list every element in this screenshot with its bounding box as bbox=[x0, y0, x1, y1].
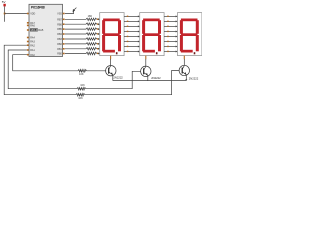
resistor 180 row 6 bbox=[86, 43, 97, 46]
resistor 180 row 8 bbox=[86, 52, 97, 55]
IC right pin RB4 bbox=[63, 33, 65, 35]
svg-text:RA4: RA4 bbox=[30, 37, 35, 40]
IC left pin RA4 bbox=[27, 37, 29, 39]
IC U1 PIC16F88 body bbox=[29, 4, 63, 56]
wire 5V rail vertical bbox=[4, 6, 6, 21]
display DS1 segment a (top) bbox=[103, 19, 120, 22]
7-segment display DS3 module bbox=[178, 13, 202, 56]
ground arrow symbol bbox=[74, 8, 77, 11]
svg-text:RA3: RA3 bbox=[30, 41, 35, 44]
display DS2 segment b (top-right) bbox=[158, 20, 161, 34]
wire emitter Q3 to bus bbox=[185, 74, 187, 79]
transistor Q3 2N2222 bbox=[179, 65, 189, 75]
svg-text:RB5: RB5 bbox=[57, 28, 62, 31]
wire segment bus gap1 row 3 bbox=[124, 25, 138, 27]
wire segment bus gap1 row 6 bbox=[124, 41, 138, 43]
display DS1 segment f (top-left) bbox=[102, 20, 105, 34]
wire emitter Q2 to bus bbox=[147, 75, 149, 81]
display DS1 segment g (middle) bbox=[103, 33, 120, 36]
display DS1 decimal point bbox=[116, 52, 118, 54]
svg-text:MCLR: MCLR bbox=[31, 29, 38, 32]
wire resistor to display arrow bbox=[97, 48, 99, 50]
wire VSS bbox=[65, 10, 74, 13]
display DS2 segment e (bottom-left) bbox=[142, 35, 145, 51]
wire segment bus gap2 row 1 bbox=[164, 15, 176, 17]
wire RB7 to resistor bbox=[65, 18, 86, 20]
wire collector Q3 bbox=[183, 59, 185, 66]
display DS3 segment a (top) bbox=[181, 19, 198, 22]
IC left pin RA5/MCLR label with inverted MCLR box bbox=[30, 28, 38, 31]
IC left pin RA2 bbox=[27, 44, 29, 46]
5V terminal pad bbox=[3, 4, 5, 7]
wire R4 to Q1 base bbox=[87, 70, 107, 72]
svg-text:RB6: RB6 bbox=[57, 23, 62, 26]
wire collector Q2 bbox=[145, 59, 147, 67]
wire segment bus gap2 row 3 bbox=[164, 25, 176, 27]
wire RB4 to resistor bbox=[65, 33, 86, 35]
wire RB0 to resistor bbox=[65, 53, 86, 55]
wire segment bus gap2 row 2 bbox=[164, 20, 176, 22]
wire R5 to Q2 base bbox=[86, 71, 141, 88]
wire segment bus gap2 row 8 bbox=[164, 51, 176, 53]
display DS3 segment c (bottom-right) bbox=[196, 35, 199, 51]
IC left pin RA1 bbox=[27, 49, 29, 51]
display DS1 segment e (bottom-left) bbox=[102, 35, 105, 51]
wire segment bus gap2 row 5 bbox=[164, 36, 176, 38]
IC left pin RA0 bbox=[27, 54, 29, 56]
svg-text:10K: 10K bbox=[78, 96, 83, 100]
svg-text:RA2: RA2 bbox=[30, 44, 35, 47]
display DS3 segment d (bottom) bbox=[181, 50, 193, 53]
IC left pin RA7 bbox=[27, 22, 29, 24]
resistor 180 row 4 bbox=[86, 33, 97, 35]
resistor 180 row 5 bbox=[86, 38, 97, 40]
wire emitter Q1 to bus bbox=[112, 74, 114, 80]
wire segment bus gap1 row 8 bbox=[124, 51, 138, 53]
svg-text:2N2222: 2N2222 bbox=[189, 76, 199, 80]
svg-text:VDD: VDD bbox=[30, 13, 35, 16]
display DS1 segment c (bottom-right) bbox=[118, 35, 121, 51]
resistor R6 10K (Q3 base) bbox=[76, 94, 85, 97]
svg-text:RA5: RA5 bbox=[38, 28, 44, 32]
IC left pin VDD bbox=[27, 13, 29, 15]
wire R6 to Q3 base bbox=[85, 71, 180, 95]
svg-text:2N2222: 2N2222 bbox=[151, 76, 161, 80]
wire RB1 to resistor bbox=[65, 48, 86, 50]
display pin stub to Q3 collector bbox=[183, 56, 185, 60]
transistor Q2 2N2222 bbox=[141, 66, 151, 76]
IC right pin VSS bbox=[63, 13, 65, 15]
resistor 180 row 3 bbox=[86, 28, 97, 31]
wire common emitter bus bbox=[113, 80, 187, 82]
wire RB6 to resistor bbox=[65, 23, 86, 25]
wire VDD to rail bbox=[5, 13, 28, 15]
display DS2 segment a (top) bbox=[143, 19, 160, 22]
wire segment bus gap1 row 5 bbox=[124, 36, 138, 38]
svg-text:RB0: RB0 bbox=[57, 53, 62, 56]
wire resistor to display arrow bbox=[97, 38, 99, 40]
svg-text:10K: 10K bbox=[80, 83, 85, 87]
wire segment bus gap2 row 7 bbox=[164, 46, 176, 48]
svg-text:RB1: RB1 bbox=[57, 48, 62, 51]
display DS3 decimal point bbox=[194, 52, 196, 54]
wire resistor to display arrow bbox=[97, 28, 99, 30]
display DS2 segment f (top-left) bbox=[142, 20, 145, 34]
wire RA1 pin to R5 base resistor bbox=[8, 50, 77, 89]
svg-text:VSS: VSS bbox=[57, 13, 62, 16]
wire segment bus gap2 row 6 bbox=[164, 41, 176, 43]
svg-text:5V: 5V bbox=[2, 0, 6, 4]
IC right pin RB0 bbox=[63, 53, 65, 55]
svg-text:RA6: RA6 bbox=[30, 25, 35, 28]
svg-text:RB4: RB4 bbox=[57, 33, 62, 36]
display pin stub to Q2 collector bbox=[145, 56, 147, 60]
svg-text:PIC16F88: PIC16F88 bbox=[31, 6, 45, 10]
wire resistor to display arrow bbox=[97, 43, 99, 45]
wire RB5 to resistor bbox=[65, 28, 86, 30]
display DS1 segment b (top-right) bbox=[118, 20, 121, 34]
wire RA2 pin to R6 base resistor bbox=[4, 45, 76, 94]
display DS2 segment d (bottom) bbox=[143, 50, 155, 53]
transistor Q1 2N2222 bbox=[106, 66, 116, 76]
display DS2 decimal point bbox=[156, 52, 158, 54]
wire segment bus gap1 row 1 bbox=[124, 15, 138, 17]
display DS3 segment g (middle) bbox=[181, 33, 198, 36]
resistor R4 10K (Q1 base) bbox=[78, 70, 87, 73]
IC right pin RB1 bbox=[63, 48, 65, 50]
wire resistor to display arrow bbox=[97, 33, 99, 35]
7-segment display DS2 module bbox=[140, 13, 164, 56]
IC right pin RB3 bbox=[63, 38, 65, 40]
wire RB3 to resistor bbox=[65, 38, 86, 40]
wire segment bus gap1 row 7 bbox=[124, 46, 138, 48]
wire segment bus gap2 row 4 bbox=[164, 31, 176, 33]
IC right pin RB7 bbox=[63, 19, 65, 21]
wire resistor to display arrow bbox=[97, 23, 99, 25]
svg-text:RB7: RB7 bbox=[57, 18, 62, 21]
display pin stub to Q1 collector bbox=[110, 56, 112, 60]
display DS2 segment c (bottom-right) bbox=[158, 35, 161, 51]
display DS3 segment b (top-right) bbox=[196, 20, 199, 34]
display DS3 segment f (top-left) bbox=[180, 20, 183, 34]
wire resistor to display arrow bbox=[97, 18, 99, 20]
wire RB2 to resistor bbox=[65, 43, 86, 45]
wire RA0 pin to R4 base resistor bbox=[13, 55, 78, 71]
junction dot on 5V rail bbox=[4, 13, 6, 15]
svg-text:RB3: RB3 bbox=[57, 38, 62, 41]
wire segment bus gap1 row 4 bbox=[124, 31, 138, 33]
IC right pin RB2 bbox=[63, 43, 65, 45]
IC left pin RA5/MCLR bbox=[27, 29, 29, 31]
wire collector Q1 bbox=[110, 59, 112, 66]
display DS3 segment e (bottom-left) bbox=[180, 35, 183, 51]
resistor R5 10K (Q2 base) bbox=[77, 88, 86, 91]
display DS1 segment d (bottom) bbox=[103, 50, 115, 53]
wire resistor to display arrow bbox=[97, 53, 99, 55]
IC right pin RB6 bbox=[63, 23, 65, 25]
svg-text:RA1: RA1 bbox=[30, 49, 35, 52]
IC left pin RA3 bbox=[27, 41, 29, 43]
wire segment bus gap1 row 2 bbox=[124, 20, 138, 22]
display DS2 segment g (middle) bbox=[143, 33, 160, 36]
resistor 180 row 7 bbox=[86, 48, 97, 51]
svg-text:RB2: RB2 bbox=[57, 43, 62, 46]
7-segment display DS1 module bbox=[100, 13, 124, 56]
IC left pin RA6 bbox=[27, 25, 29, 27]
resistor 180 row 1 bbox=[86, 18, 97, 21]
svg-text:RA0: RA0 bbox=[30, 54, 35, 57]
svg-text:2N2222: 2N2222 bbox=[113, 76, 123, 80]
IC right pin RB5 bbox=[63, 28, 65, 30]
svg-text:10K: 10K bbox=[79, 72, 84, 76]
resistor 180 row 2 bbox=[86, 23, 97, 26]
svg-text:180: 180 bbox=[88, 14, 93, 18]
